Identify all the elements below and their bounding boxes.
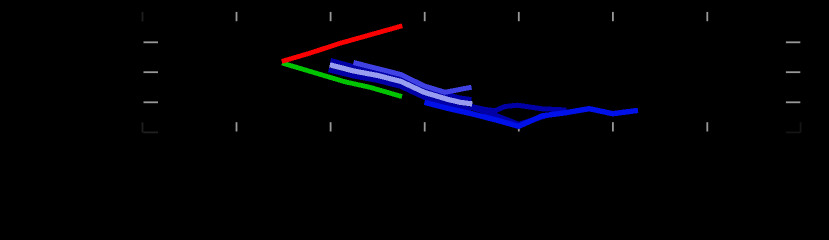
- faint border tick bottom-left horizontal: [143, 132, 158, 134]
- faint border tick bottom-right vertical: [800, 122, 802, 132]
- bright blue line: [424, 102, 638, 126]
- y axis right ticks: [786, 41, 800, 103]
- periwinkle line: [330, 65, 473, 104]
- x axis bottom ticks: [236, 122, 709, 131]
- faint border tick top-left: [142, 12, 144, 21]
- green line: [282, 63, 402, 97]
- red line: [282, 26, 403, 62]
- faint border tick bottom-left vertical: [142, 122, 144, 132]
- faint border tick bottom-right horizontal: [786, 132, 801, 134]
- navy line B below periwinkle: [329, 70, 472, 109]
- navy line A above periwinkle: [331, 60, 472, 99]
- chart plot area: [0, 0, 829, 191]
- x axis top ticks: [236, 12, 709, 21]
- navy tail lower branch: [470, 107, 553, 124]
- navy tail upper branch: [470, 105, 567, 111]
- y axis left ticks: [144, 41, 159, 103]
- medium blue line: [354, 63, 472, 93]
